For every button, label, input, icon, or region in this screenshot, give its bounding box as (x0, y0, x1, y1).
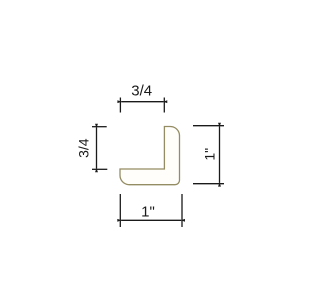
svg-text:1": 1" (141, 204, 155, 221)
svg-text:1": 1" (202, 148, 218, 161)
svg-text:3/4: 3/4 (131, 83, 152, 100)
svg-text:3/4: 3/4 (76, 138, 92, 158)
